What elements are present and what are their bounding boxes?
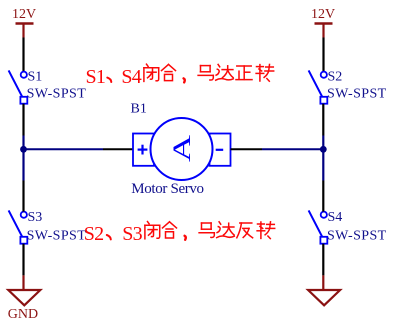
char bi (close) [145,222,160,239]
switch S4 [309,210,328,243]
char he (together) [163,222,177,238]
svg-text:SW-SPST: SW-SPST [27,228,87,243]
node A (left junction) [20,146,27,153]
fullwidth comma [185,236,186,240]
svg-text:S3: S3 [28,210,43,225]
char fan (reverse) [237,223,253,238]
svg-text:S4: S4 [328,210,343,225]
char da (reach) [216,64,234,80]
wire (12V left to S1) [22,38,24,72]
motor plus terminal mark [138,145,148,155]
switch S1 [9,70,28,103]
motor minus terminal mark [216,149,224,151]
char bi (close) [144,64,159,81]
svg-text:SW-SPST: SW-SPST [327,87,387,102]
char zhuan (turn) [257,222,275,239]
dun-comma [107,78,111,82]
annotation text: S1, S4 closed, motor forward (red) [86,64,274,88]
motor B1 [133,118,231,180]
char he (together) [162,64,176,80]
power port 12V (left) [16,24,34,38]
wire (S2 to node B) [322,104,324,136]
switch S3 [9,210,28,243]
wire (node A to S3 pin) [22,181,24,212]
wire (node A to motor +) [24,148,104,150]
char da (reach) [217,222,235,238]
svg-text:SW-SPST: SW-SPST [27,87,87,102]
char zheng (forward) [236,66,252,80]
svg-text:B1: B1 [131,102,147,117]
char ma (horse) [198,66,213,80]
power port GND (right) [308,275,340,305]
svg-text:SW-SPST: SW-SPST [327,228,387,243]
svg-text:A: A [168,135,195,162]
wire (node B to S4) [322,181,324,212]
fullwidth comma [184,78,185,82]
svg-text:Motor Servo: Motor Servo [131,181,203,197]
svg-text:S2: S2 [328,70,343,85]
power port 12V (right) [315,24,333,38]
svg-text:S4: S4 [121,66,141,88]
char zhuan (turn) [256,64,274,81]
svg-text:GND: GND [8,307,38,322]
wire (S1 to node A) [22,104,24,136]
svg-text:12V: 12V [12,7,36,22]
svg-text:S1: S1 [28,70,43,85]
power port GND (left) [8,275,40,305]
svg-text:S3: S3 [122,223,142,245]
switch S2 [309,70,328,103]
node B (right junction) [320,146,327,153]
svg-text:12V: 12V [311,7,335,22]
svg-text:S1: S1 [86,66,106,88]
dun-comma [107,235,111,239]
wire (S4 to ground right) [322,244,324,276]
wire (motor - to node B) [231,148,263,150]
svg-text:S2: S2 [84,223,104,245]
char ma (horse) [199,223,214,237]
wire (12V right to S2) [322,38,324,72]
annotation text: S2, S3 closed, motor reverse (red) [84,222,275,245]
wire (S3 to GND) [22,244,24,276]
